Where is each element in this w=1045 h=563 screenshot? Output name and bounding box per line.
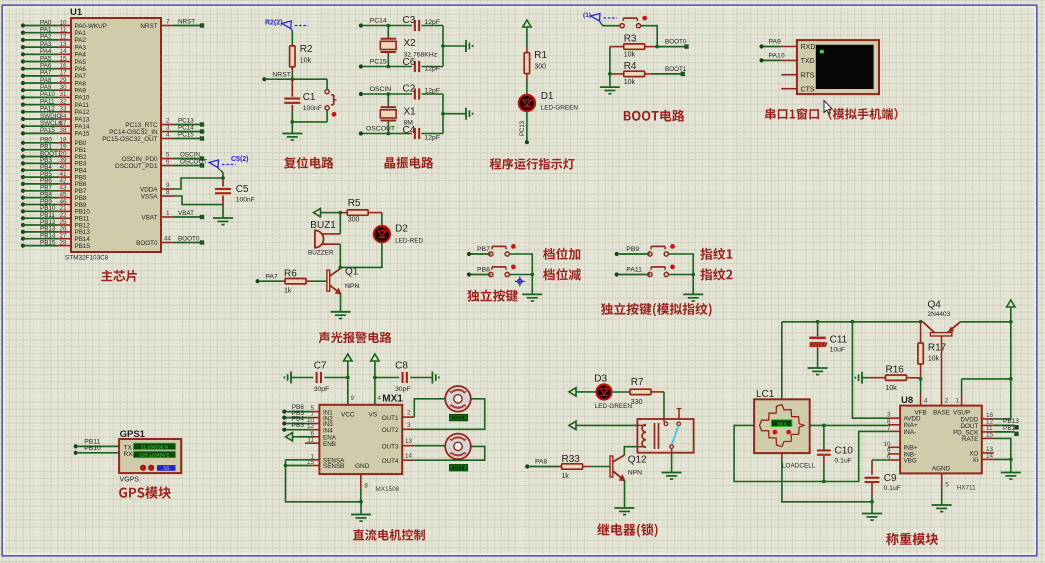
svg-text:X2: X2 <box>404 38 417 49</box>
svg-text:4: 4 <box>166 132 170 139</box>
svg-text:C3: C3 <box>403 15 416 26</box>
svg-text:OSCIN: OSCIN <box>370 86 392 93</box>
svg-text:OSCIN_PD0: OSCIN_PD0 <box>122 156 158 163</box>
wire rail to ground keys <box>531 275 533 295</box>
node PA12 (pin 33) <box>21 106 71 114</box>
svg-text:37: 37 <box>59 120 67 127</box>
wire ENA <box>298 430 320 437</box>
node INA+ C10 tap <box>822 424 826 428</box>
svg-text:BUZZER: BUZZER <box>308 250 334 257</box>
wire Q1 collector up <box>339 267 341 269</box>
svg-text:MX1508: MX1508 <box>375 486 399 493</box>
node NRST (pin 7) <box>161 19 204 28</box>
svg-text:7: 7 <box>166 19 170 26</box>
label 继电器(锁) <box>597 523 658 537</box>
svg-text:VBG: VBG <box>904 457 917 464</box>
wire LC1 left to INA- <box>734 425 888 481</box>
svg-text:PA15: PA15 <box>75 131 90 138</box>
svg-text:12pF: 12pF <box>425 88 441 95</box>
wire AVDD to rail <box>852 322 888 418</box>
wire DVDD riser <box>994 379 1011 419</box>
wire LC1 right to INA+ <box>810 424 888 426</box>
pin VBG stub (pin 6) <box>887 454 900 461</box>
node PA1 (pin 11) <box>21 27 71 35</box>
node VCC junction motor <box>346 376 350 380</box>
svg-text:2: 2 <box>166 118 170 125</box>
svg-text:PA11: PA11 <box>626 267 642 274</box>
svg-text:LED-GREEN: LED-GREEN <box>595 403 633 410</box>
node PB6 (pin 42) <box>21 178 71 186</box>
wire VSUP horizontal <box>962 378 1011 380</box>
svg-text:30: 30 <box>59 84 67 91</box>
wire PA7 to R6 <box>260 280 281 282</box>
node reset bottom junction <box>290 120 294 124</box>
power arrow VSUP rail <box>1010 307 1012 313</box>
node PC13 terminal dot <box>525 140 529 144</box>
node X1 top junction <box>386 92 390 96</box>
capacitor C2 12pF <box>403 84 441 100</box>
resistor R5 300 <box>340 198 382 224</box>
svg-text:16: 16 <box>163 466 169 472</box>
svg-text:PB15: PB15 <box>75 243 91 250</box>
loadcell LC1 <box>754 389 816 469</box>
svg-text:ENB: ENB <box>323 441 336 448</box>
node PB1 (pin 19) <box>21 144 71 152</box>
wire left rail R3-R4-ground <box>609 47 611 88</box>
node PA8 (pin 29) <box>21 77 71 85</box>
svg-text:PA10: PA10 <box>769 52 785 59</box>
svg-text:PB7: PB7 <box>477 246 490 253</box>
svg-text:PA3: PA3 <box>40 41 52 48</box>
wire C11 to ground <box>817 352 819 368</box>
resistor R16 10k <box>869 365 921 393</box>
pin RATE stub (pin 15) <box>982 432 994 439</box>
svg-text:PC15: PC15 <box>370 59 387 66</box>
node PA4 (pin 14) <box>21 48 71 56</box>
svg-text:C5: C5 <box>236 184 249 195</box>
svg-text:LED-GREEN: LED-GREEN <box>541 105 579 112</box>
svg-text:28: 28 <box>59 239 67 246</box>
svg-text:15: 15 <box>307 459 315 466</box>
wire Q4 base to BASE pin 2 <box>942 336 949 406</box>
svg-text:8: 8 <box>166 189 170 196</box>
power arrow above VS pin <box>374 361 376 367</box>
svg-text:SWDIO: SWDIO <box>40 113 61 120</box>
wire R6 to Q1 base <box>311 280 327 282</box>
node VBAT (pin 1) <box>161 210 204 219</box>
label 档位减 <box>543 268 581 280</box>
node PA9 (pin 30) <box>21 84 71 92</box>
node motor ground junction <box>359 500 363 504</box>
wire power to R1 <box>526 33 528 47</box>
wire PD_SCK to PB14 <box>994 425 1019 436</box>
node C9 ground junction <box>870 500 874 504</box>
node PB3 terminal (pin 12) <box>282 422 319 432</box>
svg-text:11: 11 <box>307 437 314 444</box>
svg-text:44: 44 <box>164 236 172 243</box>
svg-text:R1: R1 <box>534 50 547 61</box>
resistor R4 10k <box>610 61 651 86</box>
svg-text:PA3: PA3 <box>75 44 87 51</box>
wire sense rail down <box>286 460 362 502</box>
crystal X1 8M <box>380 107 416 127</box>
node PB10 terminal <box>74 445 120 455</box>
svg-text:PA8: PA8 <box>75 80 87 87</box>
wire VSSA pin 8 to C5 bottom <box>161 189 223 205</box>
node PA11 terminal <box>615 267 650 277</box>
svg-text:HX711: HX711 <box>957 485 977 492</box>
resistor R6 1k <box>281 269 311 295</box>
svg-text:D1: D1 <box>541 91 554 102</box>
svg-text:30pF: 30pF <box>314 386 330 393</box>
svg-text:NPN: NPN <box>345 283 359 290</box>
wire DOUT to PB13 <box>994 418 1019 430</box>
wire LC1 bottom rail <box>782 453 872 502</box>
wire X1 top <box>387 94 389 107</box>
svg-text:RATE: RATE <box>962 436 978 443</box>
svg-text:13: 13 <box>405 438 413 445</box>
node BOOT1 (pin 20) <box>21 150 71 158</box>
power arrow above VCC pin <box>347 361 349 367</box>
svg-text:OUT3: OUT3 <box>382 443 399 450</box>
svg-text:10k: 10k <box>928 356 940 363</box>
svg-text:R2(2): R2(2) <box>265 20 283 27</box>
capacitor C4 12pF <box>403 125 441 142</box>
label 独立按键 <box>467 290 518 302</box>
node PB0 (pin 18) <box>21 137 71 145</box>
svg-text:PA13: PA13 <box>75 116 90 123</box>
wire R16 left <box>862 377 869 379</box>
svg-text:R3: R3 <box>624 34 637 45</box>
svg-text:1k: 1k <box>284 288 292 295</box>
node PB5 terminal (pin 7) <box>282 410 319 420</box>
node PB5 (pin 41) <box>21 171 71 179</box>
ground right of X1 <box>465 108 467 120</box>
motor driver MX1 chip body MX1508 <box>319 394 403 494</box>
svg-text:14: 14 <box>59 48 67 55</box>
power flag (1) <box>583 12 617 24</box>
node PA0 (pin 10) <box>21 19 71 27</box>
wire flag to R2 <box>291 31 293 45</box>
svg-text:11: 11 <box>60 27 67 34</box>
svg-text:Q12: Q12 <box>628 455 647 466</box>
svg-text:BOOT0: BOOT0 <box>136 240 158 247</box>
buzzer BUZ1 <box>308 220 340 257</box>
svg-text:PC13: PC13 <box>520 120 526 136</box>
node PB8 (pin 45) <box>21 191 71 199</box>
svg-text:C11: C11 <box>830 335 848 346</box>
svg-text:C8: C8 <box>395 361 408 372</box>
wire crystal-2 right vertical <box>442 26 444 67</box>
svg-text:CTS: CTS <box>801 86 815 93</box>
svg-text:15: 15 <box>59 55 67 62</box>
capacitor C7 30pF <box>314 361 330 393</box>
svg-text:C1: C1 <box>303 92 316 103</box>
ground motor block <box>351 514 371 516</box>
wire NRST to button top <box>326 79 328 89</box>
wire AGND to ground <box>941 488 943 505</box>
ground below AGND <box>932 504 952 506</box>
svg-text:PA12: PA12 <box>75 109 90 116</box>
wire C7 right to VCC node <box>324 377 348 379</box>
resistor R33 1k <box>557 454 590 480</box>
node VFB junction <box>919 377 923 381</box>
svg-text:9: 9 <box>166 182 170 189</box>
wire D3 to R7 <box>612 391 630 393</box>
svg-text:PA11: PA11 <box>75 102 90 109</box>
svg-text:5: 5 <box>166 152 170 159</box>
label 主芯片 <box>101 270 137 282</box>
svg-text:PA12: PA12 <box>40 106 55 113</box>
ground fp keys <box>683 293 703 295</box>
wire relay coil to Q12 collector <box>624 447 637 455</box>
svg-text:16: 16 <box>59 63 67 70</box>
svg-text:3: 3 <box>166 125 170 132</box>
pin OUT1 (pin 2) wire to motor 1 <box>402 399 445 417</box>
power arrow above R1 <box>526 27 528 33</box>
svg-text:BOOT0: BOOT0 <box>178 236 200 243</box>
node crystal-1 ground tap <box>441 112 445 116</box>
wire crystal-1 right vertical <box>442 94 444 134</box>
svg-text:OUT1: OUT1 <box>382 415 399 422</box>
label 独立按键(模拟指纹) <box>601 303 712 317</box>
wire R7 to relay <box>663 392 665 419</box>
power arrow left ENA (pin 6) <box>293 436 298 438</box>
wire junction to VFB pin 4 <box>921 379 928 406</box>
pin OUT2 (pin 3) wire from motor 1 <box>402 399 485 430</box>
pin XI stub (pin 14) <box>982 453 994 460</box>
svg-text:PA14: PA14 <box>75 124 90 131</box>
node X2 bottom junction <box>386 65 390 69</box>
pin INA- stub (pin 7) <box>887 425 900 432</box>
wire Q12 emitter to ground <box>624 480 626 507</box>
node PA2 (pin 12) <box>21 34 71 42</box>
pin SENSB wire (pin 15) <box>286 459 320 466</box>
label 直流电机控制 <box>353 529 425 541</box>
node PB11 terminal <box>74 438 120 448</box>
mouse cursor <box>824 101 832 114</box>
svg-text:X1: X1 <box>404 107 417 118</box>
capacitor C3 12pF <box>403 15 441 31</box>
svg-text:PC15: PC15 <box>178 132 194 139</box>
wire PC14 row <box>363 25 412 27</box>
svg-text:PA1: PA1 <box>40 27 52 34</box>
capacitor C6 12pF <box>403 57 441 73</box>
push button BOOT <box>620 24 624 28</box>
label 程序运行指示灯 <box>490 158 575 170</box>
node PB9 (pin 46) <box>21 198 71 206</box>
svg-text:1: 1 <box>955 398 959 405</box>
wire fp button2 to rail <box>668 274 693 276</box>
capacitor C5 100nF <box>215 178 255 205</box>
svg-text:RX: RX <box>124 451 134 458</box>
label 指纹1 <box>700 248 732 260</box>
svg-text:12pF: 12pF <box>425 66 441 73</box>
wire fp rail to ground <box>692 275 694 295</box>
motor 2 display <box>450 465 468 471</box>
node PA8 terminal <box>525 459 557 469</box>
svg-text:4: 4 <box>378 395 382 402</box>
svg-text:38: 38 <box>59 127 67 134</box>
resistor R3 10k <box>610 34 657 59</box>
svg-text:R2: R2 <box>300 44 313 55</box>
svg-text:2N4403: 2N4403 <box>928 311 951 318</box>
transistor Q1 NPN <box>327 267 360 294</box>
svg-text:15: 15 <box>986 432 994 439</box>
svg-text:VSSA: VSSA <box>141 193 159 200</box>
svg-text:29: 29 <box>59 77 67 84</box>
wire VBG to C9 <box>872 459 888 461</box>
svg-text:RTS: RTS <box>801 72 815 79</box>
svg-text:PA0: PA0 <box>40 19 52 26</box>
wire C9 bottom <box>871 495 873 502</box>
svg-text:30pF: 30pF <box>395 386 411 393</box>
motor 1 <box>445 386 471 412</box>
node PB11 (pin 22) <box>21 212 71 220</box>
pin DVDD stub (pin 16) <box>982 412 994 419</box>
node PA7 terminal <box>256 274 278 284</box>
capacitor C11 10uF polarized <box>809 322 847 354</box>
svg-text:R6: R6 <box>284 269 297 280</box>
node PA11 (pin 32) <box>21 98 71 106</box>
svg-text:OUT4: OUT4 <box>382 458 399 465</box>
wire to right ground x1 <box>443 113 466 115</box>
node OSCOUT (pin 6) <box>161 159 207 168</box>
wire relay common to ground <box>671 453 673 472</box>
svg-text:U8: U8 <box>901 395 913 406</box>
svg-text:5: 5 <box>945 482 949 489</box>
virtual terminal serial window <box>797 40 879 94</box>
relay RL1 (lock) <box>637 409 693 453</box>
ground below C11 <box>808 367 828 369</box>
svg-text:8: 8 <box>364 483 368 490</box>
wire button bottom <box>326 110 328 122</box>
wire to motor ground <box>360 502 362 514</box>
wire R33 to Q12 base <box>590 466 610 468</box>
resistor R17 10k <box>918 322 947 379</box>
svg-text:14: 14 <box>986 453 994 460</box>
pin ENB stub (pin 11) <box>305 437 319 444</box>
svg-text:MX1: MX1 <box>382 394 403 405</box>
svg-text:PA9: PA9 <box>40 84 52 91</box>
svg-text:300: 300 <box>534 64 546 71</box>
svg-text:12: 12 <box>59 34 67 41</box>
power arrow left of R5 <box>321 212 326 214</box>
resistor R2 10k <box>290 44 313 72</box>
label 复位电路 <box>284 157 334 169</box>
wire RATE to XI rail <box>994 438 1011 472</box>
label BOOT电路 <box>624 110 685 122</box>
svg-text:9: 9 <box>351 395 355 402</box>
svg-text:C9: C9 <box>884 473 897 484</box>
wire C7 left <box>291 377 313 379</box>
node PA3 (pin 13) <box>21 41 71 49</box>
node collector junction <box>338 266 342 270</box>
svg-text:C6: C6 <box>403 57 416 68</box>
node PA6 (pin 16) <box>21 63 71 71</box>
power arrow left of relay coil <box>576 424 581 426</box>
svg-text:VCC: VCC <box>341 412 355 419</box>
svg-text:OSCOUT_PD1: OSCOUT_PD1 <box>115 163 158 170</box>
ground below RATE rail <box>1001 472 1021 474</box>
node crystal-2 ground tap <box>441 44 445 48</box>
svg-text:PA11: PA11 <box>40 98 55 105</box>
svg-text:PA8: PA8 <box>40 77 52 84</box>
wire C8 left <box>375 377 399 379</box>
wire Q1 emitter to ground <box>340 294 342 312</box>
wire buzzer bottom to collector node <box>339 244 341 267</box>
svg-text:PB9: PB9 <box>626 246 639 253</box>
svg-text:33: 33 <box>59 106 67 113</box>
svg-text:1k: 1k <box>562 473 570 480</box>
wire flag to boot button <box>601 24 620 26</box>
svg-text:SENSB: SENSB <box>323 463 344 470</box>
node PC15 (pin 4) <box>161 132 204 141</box>
svg-text:PB8: PB8 <box>477 267 490 274</box>
svg-text:PC14: PC14 <box>370 18 387 25</box>
svg-text:0.1uF: 0.1uF <box>835 458 852 465</box>
power flag C5(2) <box>209 156 249 170</box>
node OSCOUT terminal <box>359 126 395 136</box>
motor 2 <box>445 434 471 460</box>
svg-text:13: 13 <box>59 41 67 48</box>
svg-text:R7: R7 <box>631 377 644 388</box>
svg-text:R33: R33 <box>562 454 581 465</box>
svg-text:NPN: NPN <box>628 470 642 477</box>
pin XO stub (pin 13) <box>982 446 994 453</box>
wire to right ground x2 <box>443 45 466 47</box>
node PB13 (pin 26) <box>21 226 71 234</box>
motor 1 display <box>450 414 468 420</box>
node X1 bottom junction <box>386 132 390 136</box>
svg-text:BASE: BASE <box>933 410 950 417</box>
node SWCLK (pin 37) <box>21 120 71 128</box>
wire R1 to D1 <box>526 79 528 96</box>
svg-text:RXD: RXD <box>801 44 816 51</box>
svg-text:PB13: PB13 <box>1003 418 1019 425</box>
label 称重模块 <box>886 533 938 545</box>
node PA10 terminal <box>759 52 797 62</box>
pin AGND stub (pin 5) <box>942 473 976 491</box>
svg-text:2: 2 <box>945 398 949 405</box>
svg-text:2: 2 <box>407 410 411 417</box>
label 声光报警电路 <box>319 332 392 344</box>
svg-text:D2: D2 <box>395 224 408 235</box>
svg-text:100nF: 100nF <box>303 105 322 112</box>
svg-text:PA5: PA5 <box>40 55 52 62</box>
svg-text:12pF: 12pF <box>425 19 441 26</box>
svg-text:PC13_RTC: PC13_RTC <box>125 122 158 129</box>
svg-text:D3: D3 <box>594 374 607 385</box>
svg-text:PA7: PA7 <box>40 70 52 77</box>
wire power to relay coil <box>581 424 637 426</box>
svg-text:NRST: NRST <box>140 23 157 30</box>
wire to weighing ground <box>871 502 873 513</box>
node PA5 (pin 15) <box>21 55 71 63</box>
svg-text:Q4: Q4 <box>928 300 942 311</box>
svg-text:PB3: PB3 <box>292 422 305 429</box>
node PB6 terminal (pin 5) <box>282 404 319 414</box>
node Q4 power junction <box>1009 320 1013 324</box>
pin CTS stub <box>781 88 797 90</box>
node PB10 (pin 21) <box>21 205 71 213</box>
push button reset <box>325 90 337 117</box>
svg-text:14: 14 <box>405 453 413 460</box>
svg-text:XI: XI <box>972 457 978 464</box>
push button 指纹2 <box>648 272 652 276</box>
svg-text:39.0: 39.0 <box>777 421 787 427</box>
wire button2 to rail <box>509 274 532 276</box>
